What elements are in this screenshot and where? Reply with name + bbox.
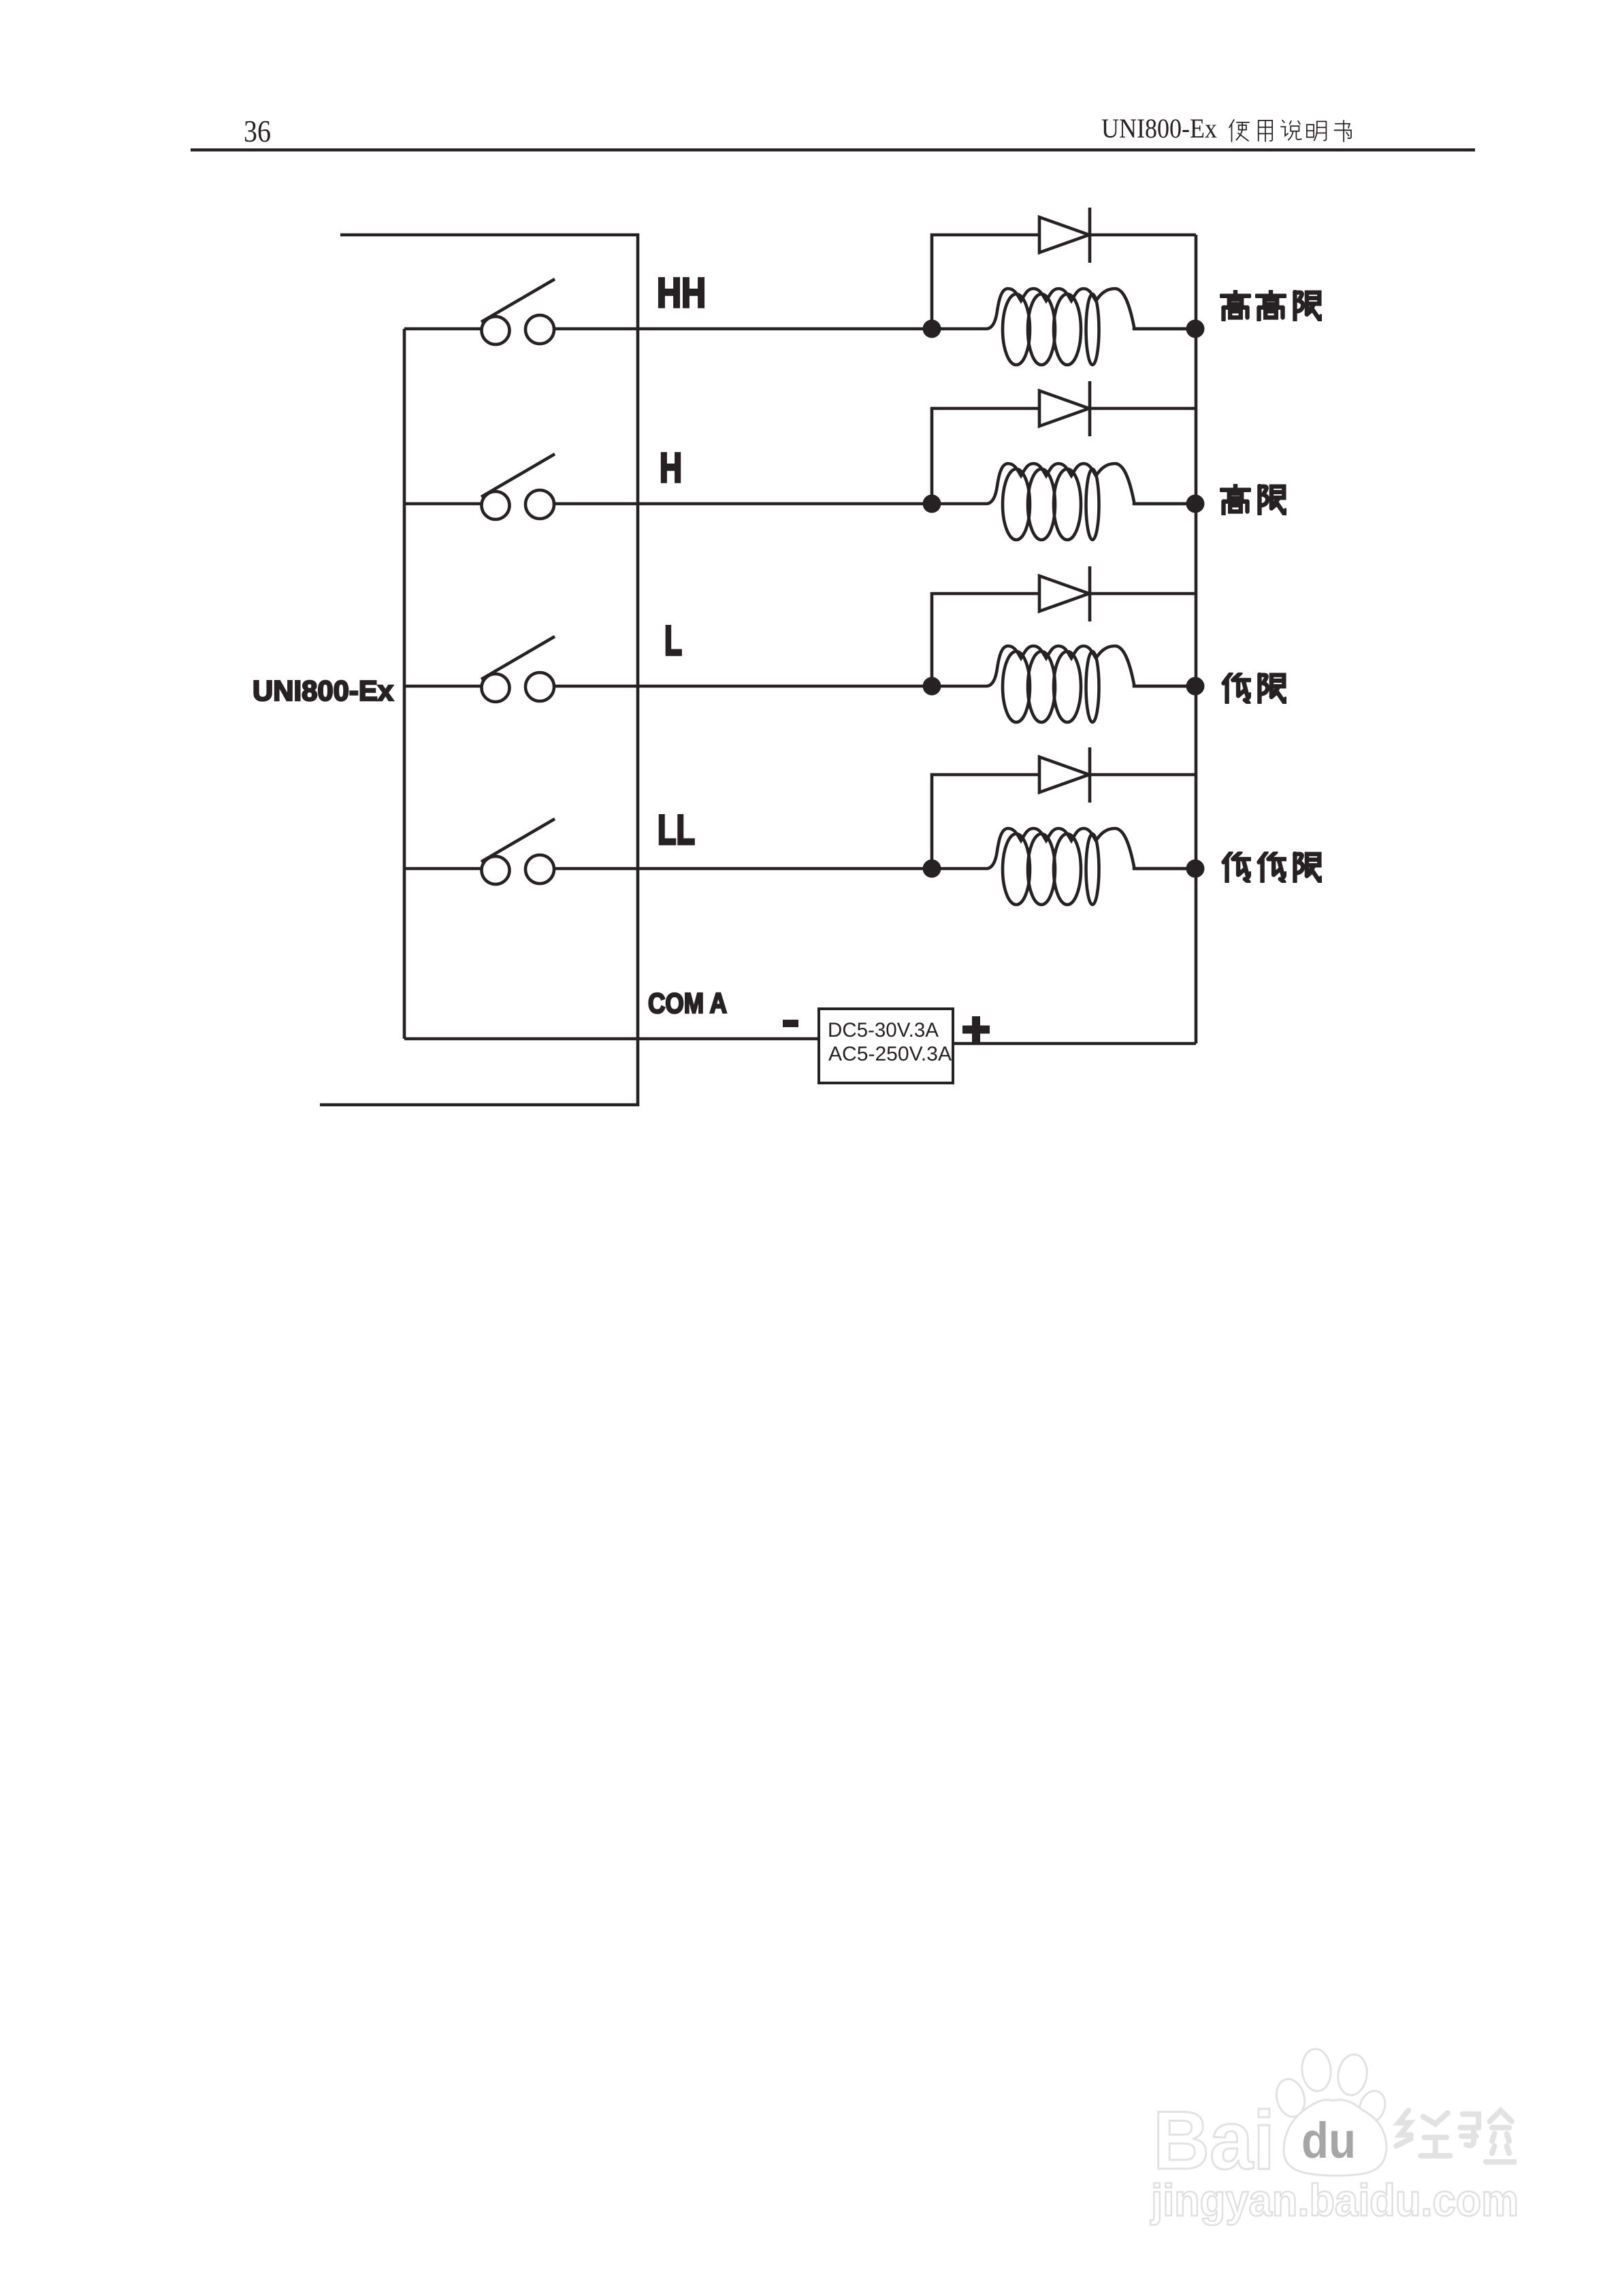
svg-text:L: L <box>664 617 682 664</box>
svg-text:UNI800-Ex: UNI800-Ex <box>253 675 394 707</box>
svg-text:AC5-250V.3A: AC5-250V.3A <box>828 1043 952 1065</box>
svg-text:H: H <box>660 444 682 491</box>
svg-text:jingyan.baidu.com: jingyan.baidu.com <box>1150 2175 1519 2225</box>
svg-text:DC5-30V.3A: DC5-30V.3A <box>828 1019 939 1041</box>
svg-text:HH: HH <box>657 270 706 316</box>
svg-text:UNI800-Ex: UNI800-Ex <box>1101 113 1217 144</box>
svg-text:Bai: Bai <box>1153 2094 1275 2186</box>
svg-text:LL: LL <box>658 807 695 853</box>
svg-text:COM A: COM A <box>648 987 727 1019</box>
svg-text:36: 36 <box>244 114 271 148</box>
svg-text:du: du <box>1301 2112 1356 2169</box>
